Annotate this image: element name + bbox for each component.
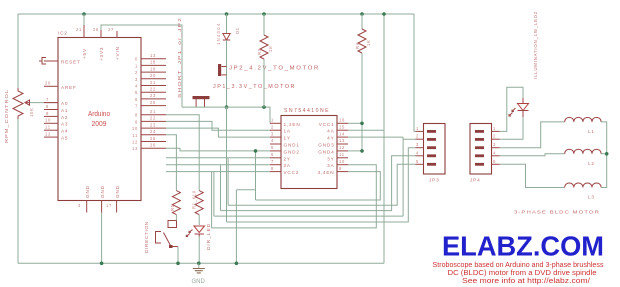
pin AREF: [44, 85, 58, 87]
wire VCC2 bus drop: [166, 172, 403, 217]
svg-text:GND: GND: [192, 279, 206, 285]
wire D1 to 1Y of driver: [166, 128, 270, 137]
pin numbers digital outer: [150, 53, 156, 148]
svg-text:DC (BLDC) motor from a DVD dri: DC (BLDC) motor from a DVD drive spindle: [448, 270, 597, 277]
svg-text:12: 12: [45, 132, 51, 137]
svg-text:26: 26: [150, 100, 156, 105]
pins JP4: [492, 131, 500, 164]
svg-text:R5: R5: [170, 204, 175, 211]
svg-text:VCC1: VCC1: [319, 122, 335, 127]
svg-text:3Y: 3Y: [327, 156, 334, 161]
svg-text:A2: A2: [61, 115, 68, 120]
svg-text:26: 26: [93, 27, 99, 32]
wire R5 to switch to rail: [176, 215, 178, 264]
svg-text:L2: L2: [588, 161, 595, 166]
wire DIR_LED to rail: [198, 237, 200, 264]
pins GND bottom x3: [87, 201, 117, 213]
node junction GND4/R4: [360, 149, 364, 153]
pin +5V: [83, 25, 85, 38]
svg-text:13: 13: [150, 53, 156, 58]
pins digital 0-7 right side: [141, 59, 166, 106]
svg-text:ELABZ.COM: ELABZ.COM: [442, 231, 604, 262]
svg-text:AREF: AREF: [61, 85, 77, 90]
labels left pins: [284, 122, 301, 175]
svg-text:7: 7: [271, 159, 274, 164]
svg-text:1: 1: [271, 118, 274, 123]
svg-text:RESET: RESET: [61, 60, 81, 65]
svg-text:11: 11: [339, 152, 345, 157]
wire bus222 to JP3 pin3: [227, 148, 416, 222]
pin +VIN (unconnected): [116, 31, 118, 38]
node junction switch/rail: [176, 262, 180, 266]
diode D1 1N4004: [226, 14, 228, 33]
labels A0-A5: [61, 101, 68, 141]
svg-text:13: 13: [339, 138, 345, 143]
wire right long vertical (rail to rail): [383, 14, 385, 263]
svg-text:+5V: +5V: [82, 48, 87, 59]
wire GND bottom rail: [18, 262, 384, 264]
svg-text:2A: 2A: [284, 163, 291, 168]
svg-text:6: 6: [135, 97, 138, 102]
svg-text:3: 3: [135, 77, 138, 82]
svg-text:GND: GND: [100, 185, 105, 198]
svg-text:R4: R4: [355, 42, 360, 49]
svg-text:A5: A5: [61, 136, 68, 141]
svg-text:7: 7: [46, 97, 49, 102]
inductor L1: [565, 117, 601, 122]
svg-text:A1: A1: [61, 108, 68, 113]
svg-text:23: 23: [150, 122, 156, 127]
labels right pins: [317, 122, 334, 175]
svg-text:SN754410NE: SN754410NE: [284, 108, 330, 114]
wire 4A to long vertical: [348, 129, 384, 131]
wire D2 to R1/LED line: [166, 115, 199, 191]
svg-text:18: 18: [150, 60, 156, 65]
svg-text:21: 21: [150, 80, 156, 85]
svg-text:2009: 2009: [92, 119, 107, 128]
svg-text:13: 13: [132, 146, 138, 151]
IC U1 SN754410NE box: [281, 116, 337, 189]
svg-text:GND2: GND2: [284, 149, 300, 154]
svg-text:GND4: GND4: [318, 149, 334, 154]
wire bus200 to 3,4EN: [256, 172, 381, 200]
potentiometer RPM CONTROL 10K: [13, 88, 30, 119]
svg-text:A0: A0: [61, 101, 68, 106]
svg-text:2: 2: [493, 134, 496, 139]
wire +5V pin to rail: [83, 14, 85, 25]
svg-text:5: 5: [135, 90, 138, 95]
wire 4Y to JP3 pin2: [348, 137, 415, 139]
node junction LED/rail/GND: [197, 262, 201, 266]
svg-text:L3: L3: [588, 195, 595, 200]
svg-text:14: 14: [339, 131, 345, 136]
svg-text:10: 10: [339, 159, 345, 164]
node junction top rail at R3: [262, 12, 266, 16]
jumper JP2: [218, 64, 227, 76]
svg-text:27: 27: [108, 27, 114, 32]
svg-text:1Y: 1Y: [284, 136, 291, 141]
svg-text:3-PHASE BLDC MOTOR: 3-PHASE BLDC MOTOR: [514, 210, 600, 215]
svg-text:15: 15: [339, 124, 345, 129]
wire JP4 pin5 to L3: [500, 164, 565, 187]
svg-text:22: 22: [150, 87, 156, 92]
resistor R3 1K: [263, 14, 265, 35]
svg-text:3: 3: [271, 131, 274, 136]
svg-text:JP4: JP4: [470, 178, 480, 183]
svg-text:1: 1: [135, 63, 138, 68]
svg-text:24: 24: [150, 129, 156, 134]
svg-text:A4: A4: [61, 129, 68, 134]
svg-text:16: 16: [339, 118, 345, 123]
svg-text:23: 23: [150, 93, 156, 98]
svg-text:8: 8: [135, 113, 138, 118]
LED DIR_LED: [198, 215, 200, 225]
svg-text:21: 21: [150, 109, 156, 114]
svg-text:1: 1: [416, 126, 419, 131]
pins left 1-8: [270, 123, 281, 171]
svg-text:R1_610: R1_610: [192, 190, 197, 209]
svg-text:GND: GND: [85, 185, 90, 198]
labels digital pins inner: [132, 57, 138, 152]
svg-text:8: 8: [271, 166, 274, 171]
pin numbers JP3: [416, 126, 419, 164]
svg-text:1N4004: 1N4004: [216, 23, 221, 45]
wire LED cathode to JP4 pin2: [500, 117, 524, 139]
svg-text:See more info at http://elabz.: See more info at http://elabz.com/: [462, 278, 590, 285]
node junction top rail at D1: [225, 12, 229, 16]
svg-text:IC2: IC2: [58, 31, 68, 36]
svg-text:6: 6: [271, 152, 274, 157]
svg-text:21: 21: [76, 27, 82, 32]
svg-text:8: 8: [46, 104, 49, 109]
svg-text:10K: 10K: [29, 107, 34, 117]
svg-text:0: 0: [135, 57, 138, 62]
svg-text:1: 1: [493, 126, 496, 131]
resistor R5: [172, 191, 180, 215]
svg-text:26: 26: [150, 143, 156, 148]
svg-text:4: 4: [416, 150, 419, 155]
svg-text:9: 9: [46, 111, 49, 116]
svg-text:4: 4: [271, 138, 274, 143]
wire left rail lower (pot bottom to GND rail): [17, 117, 19, 263]
wire D0 to 1A of driver: [166, 121, 270, 130]
wire D3 to R5 line: [166, 135, 176, 191]
LED LED2 illumination: [500, 87, 524, 131]
svg-text:4: 4: [78, 203, 81, 208]
node junction top rail at long vertical: [382, 12, 386, 16]
wire 3A to bus228: [212, 165, 377, 228]
svg-text:9: 9: [339, 166, 342, 171]
wire GND4 to R4 line: [348, 150, 362, 152]
svg-text:+VIN: +VIN: [115, 46, 120, 60]
svg-text:L1: L1: [588, 129, 595, 134]
svg-text:1,2EN: 1,2EN: [284, 122, 301, 127]
svg-text:D1: D1: [235, 27, 240, 34]
wire JP4 pin3 to L1: [500, 122, 565, 148]
svg-text:17: 17: [106, 203, 112, 208]
svg-text:2: 2: [271, 124, 274, 129]
wire +5V top rail: [18, 13, 414, 15]
wire 3.3V drop to bus: [226, 107, 228, 222]
svg-text:20: 20: [45, 81, 51, 86]
reset jumper bracket: [39, 58, 46, 65]
pin numbers JP4: [493, 126, 496, 164]
pin RESET: [44, 60, 58, 62]
svg-text:3,4EN: 3,4EN: [317, 170, 334, 175]
svg-text:RPM_CONTROL: RPM_CONTROL: [4, 89, 9, 143]
connector JP4: [470, 124, 492, 175]
wire D4 GND2 line: [166, 148, 270, 151]
wire Arduino GND to bottom rail: [101, 213, 103, 264]
wire VCC1 to R4 line: [348, 122, 362, 124]
svg-text:2: 2: [416, 134, 419, 139]
svg-text:JP1_3.3V_TO_MOTOR: JP1_3.3V_TO_MOTOR: [213, 84, 296, 90]
wire top rail to JP3 pin1: [414, 14, 415, 131]
svg-text:12: 12: [132, 140, 138, 145]
switch S1 DIRECTION: [156, 221, 179, 249]
ground symbol GND: [193, 263, 205, 273]
svg-text:2: 2: [135, 70, 138, 75]
node junction VCC1/R4: [360, 122, 364, 126]
svg-text:4A: 4A: [327, 129, 334, 134]
svg-text:DIR_LED: DIR_LED: [206, 223, 211, 250]
wire star point: [601, 122, 607, 188]
pins right 16-9: [337, 123, 348, 171]
node junction star point: [605, 152, 609, 156]
svg-text:GND: GND: [115, 185, 120, 198]
wire 2A to JP3 pin4: [166, 156, 415, 211]
svg-text:Arduino: Arduino: [88, 109, 110, 118]
wire JP4 pin4 to L2: [500, 154, 565, 156]
svg-text:SHORT_JP1_or_JP2: SHORT_JP1_or_JP2: [177, 17, 182, 98]
wire left rail upper (to pot top): [17, 14, 19, 88]
svg-text:5: 5: [416, 159, 419, 164]
svg-text:VCC2: VCC2: [284, 170, 300, 175]
svg-text:5: 5: [271, 145, 274, 150]
op-amp box Arduino 2009 IC2: [58, 38, 141, 201]
node junction GND rail under Arduino: [100, 262, 104, 266]
wire pot wiper to A0: [30, 102, 58, 104]
inductor L2: [565, 149, 601, 154]
connector JP3: [424, 124, 446, 175]
svg-text:+3V3: +3V3: [99, 47, 104, 61]
node junction GND rail: [235, 262, 239, 266]
svg-text:11: 11: [45, 125, 51, 130]
svg-text:12: 12: [339, 145, 345, 150]
svg-text:1A: 1A: [284, 129, 291, 134]
svg-text:10: 10: [132, 126, 138, 131]
svg-text:4: 4: [493, 150, 496, 155]
svg-text:5: 5: [493, 159, 496, 164]
svg-text:3A: 3A: [327, 163, 334, 168]
svg-text:1K: 1K: [366, 39, 371, 46]
pins JP3: [415, 131, 423, 164]
wire bus216 to JP3 pin2 vertical: [402, 137, 404, 216]
svg-text:JP3: JP3: [429, 178, 439, 183]
svg-text:A3: A3: [61, 122, 68, 127]
node junction top rail at R4: [360, 12, 364, 16]
svg-text:GND1: GND1: [284, 143, 300, 148]
svg-text:ILLUMINATION_1W_LED2: ILLUMINATION_1W_LED2: [533, 11, 538, 79]
node junction R3 bottom: [262, 105, 266, 109]
svg-text:20: 20: [150, 73, 156, 78]
svg-text:1K: 1K: [268, 45, 273, 52]
svg-text:4: 4: [135, 84, 138, 89]
inductor L3: [565, 183, 601, 188]
svg-text:2Y: 2Y: [284, 156, 291, 161]
jumper JP1: [193, 96, 210, 107]
svg-text:19: 19: [150, 66, 156, 71]
LED arrows: [509, 108, 516, 116]
svg-text:Stroboscope based on Arduino a: Stroboscope based on Arduino and 3-phase…: [433, 262, 604, 269]
svg-text:11: 11: [132, 133, 138, 138]
pins A0-A5: [44, 103, 58, 138]
node junction top rail at +5V pin: [82, 12, 86, 16]
svg-text:GND3: GND3: [318, 143, 334, 148]
pin numbers left: [271, 118, 274, 171]
svg-text:25: 25: [150, 136, 156, 141]
svg-text:DIRECTION: DIRECTION: [144, 221, 149, 253]
wire 3.3V node to driver pin 1: [182, 107, 270, 123]
wire GND2 to bottom rail: [236, 151, 255, 263]
svg-text:3: 3: [416, 142, 419, 147]
pin numbers right: [339, 118, 345, 171]
svg-text:9: 9: [135, 119, 138, 124]
resistor R1 610: [195, 191, 203, 215]
wire 3V3 up and right: [101, 25, 182, 107]
svg-text:10: 10: [45, 118, 51, 123]
node junction GND2: [254, 149, 258, 153]
node junction at 227,107: [225, 105, 229, 109]
wire 2Y to JP3 pin5: [166, 158, 415, 205]
svg-text:3: 3: [493, 142, 496, 147]
resistor R4 1K: [361, 14, 363, 29]
svg-text:4Y: 4Y: [327, 136, 334, 141]
svg-text:22: 22: [150, 116, 156, 121]
svg-text:JP2_4.2V_TO_MOTOR: JP2_4.2V_TO_MOTOR: [229, 66, 320, 72]
DIR_LED arrows: [186, 230, 192, 237]
pin numbers A0-A5 outer: [45, 97, 51, 137]
svg-text:R3: R3: [257, 48, 262, 55]
pin +3V3: [100, 30, 102, 38]
svg-text:7: 7: [135, 104, 138, 109]
pins digital 8-13 right side: [141, 115, 166, 149]
